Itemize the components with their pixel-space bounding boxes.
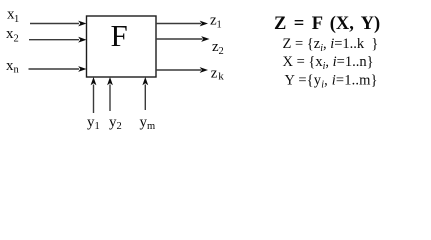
svg-text:1: 1 bbox=[95, 121, 100, 132]
wire z1 bbox=[156, 21, 208, 27]
svg-text:m: m bbox=[147, 121, 155, 132]
output label zk bbox=[211, 65, 225, 82]
svg-text:k: k bbox=[218, 70, 224, 82]
input label xn bbox=[6, 58, 20, 76]
input label x2 bbox=[6, 26, 19, 45]
svg-text:2: 2 bbox=[219, 46, 224, 57]
svg-text:Z = F (X, Y): Z = F (X, Y) bbox=[274, 14, 380, 34]
svg-text:1: 1 bbox=[14, 14, 19, 25]
svg-text:2: 2 bbox=[14, 34, 19, 45]
bottom label y2 bbox=[109, 115, 122, 133]
wire x1 bbox=[30, 21, 87, 27]
wire z2 bbox=[156, 36, 210, 42]
wire y2 (bottom input) bbox=[107, 77, 113, 111]
output label z2 bbox=[212, 39, 224, 57]
svg-text:Y ={yi, i=1..m}: Y ={yi, i=1..m} bbox=[285, 73, 378, 91]
bottom label ym bbox=[140, 115, 156, 133]
svg-text:F: F bbox=[111, 18, 128, 53]
bottom label y1 bbox=[87, 115, 100, 133]
output label z1 bbox=[210, 13, 222, 31]
wire zk bbox=[156, 67, 208, 73]
wire y1 (bottom input) bbox=[91, 77, 97, 113]
svg-text:Z = {zi, i=1..k }: Z = {zi, i=1..k } bbox=[283, 36, 379, 54]
svg-text:2: 2 bbox=[117, 121, 122, 132]
svg-text:X = {xi, i=1..n}: X = {xi, i=1..n} bbox=[283, 54, 374, 72]
svg-text:z: z bbox=[211, 65, 218, 81]
input label x1 bbox=[7, 7, 19, 25]
wire x2 bbox=[29, 37, 87, 43]
wire ym (bottom input) bbox=[142, 77, 148, 110]
wire xn bbox=[29, 66, 87, 72]
svg-text:1: 1 bbox=[217, 20, 222, 31]
svg-text:n: n bbox=[14, 65, 20, 76]
function block F bbox=[87, 16, 157, 77]
